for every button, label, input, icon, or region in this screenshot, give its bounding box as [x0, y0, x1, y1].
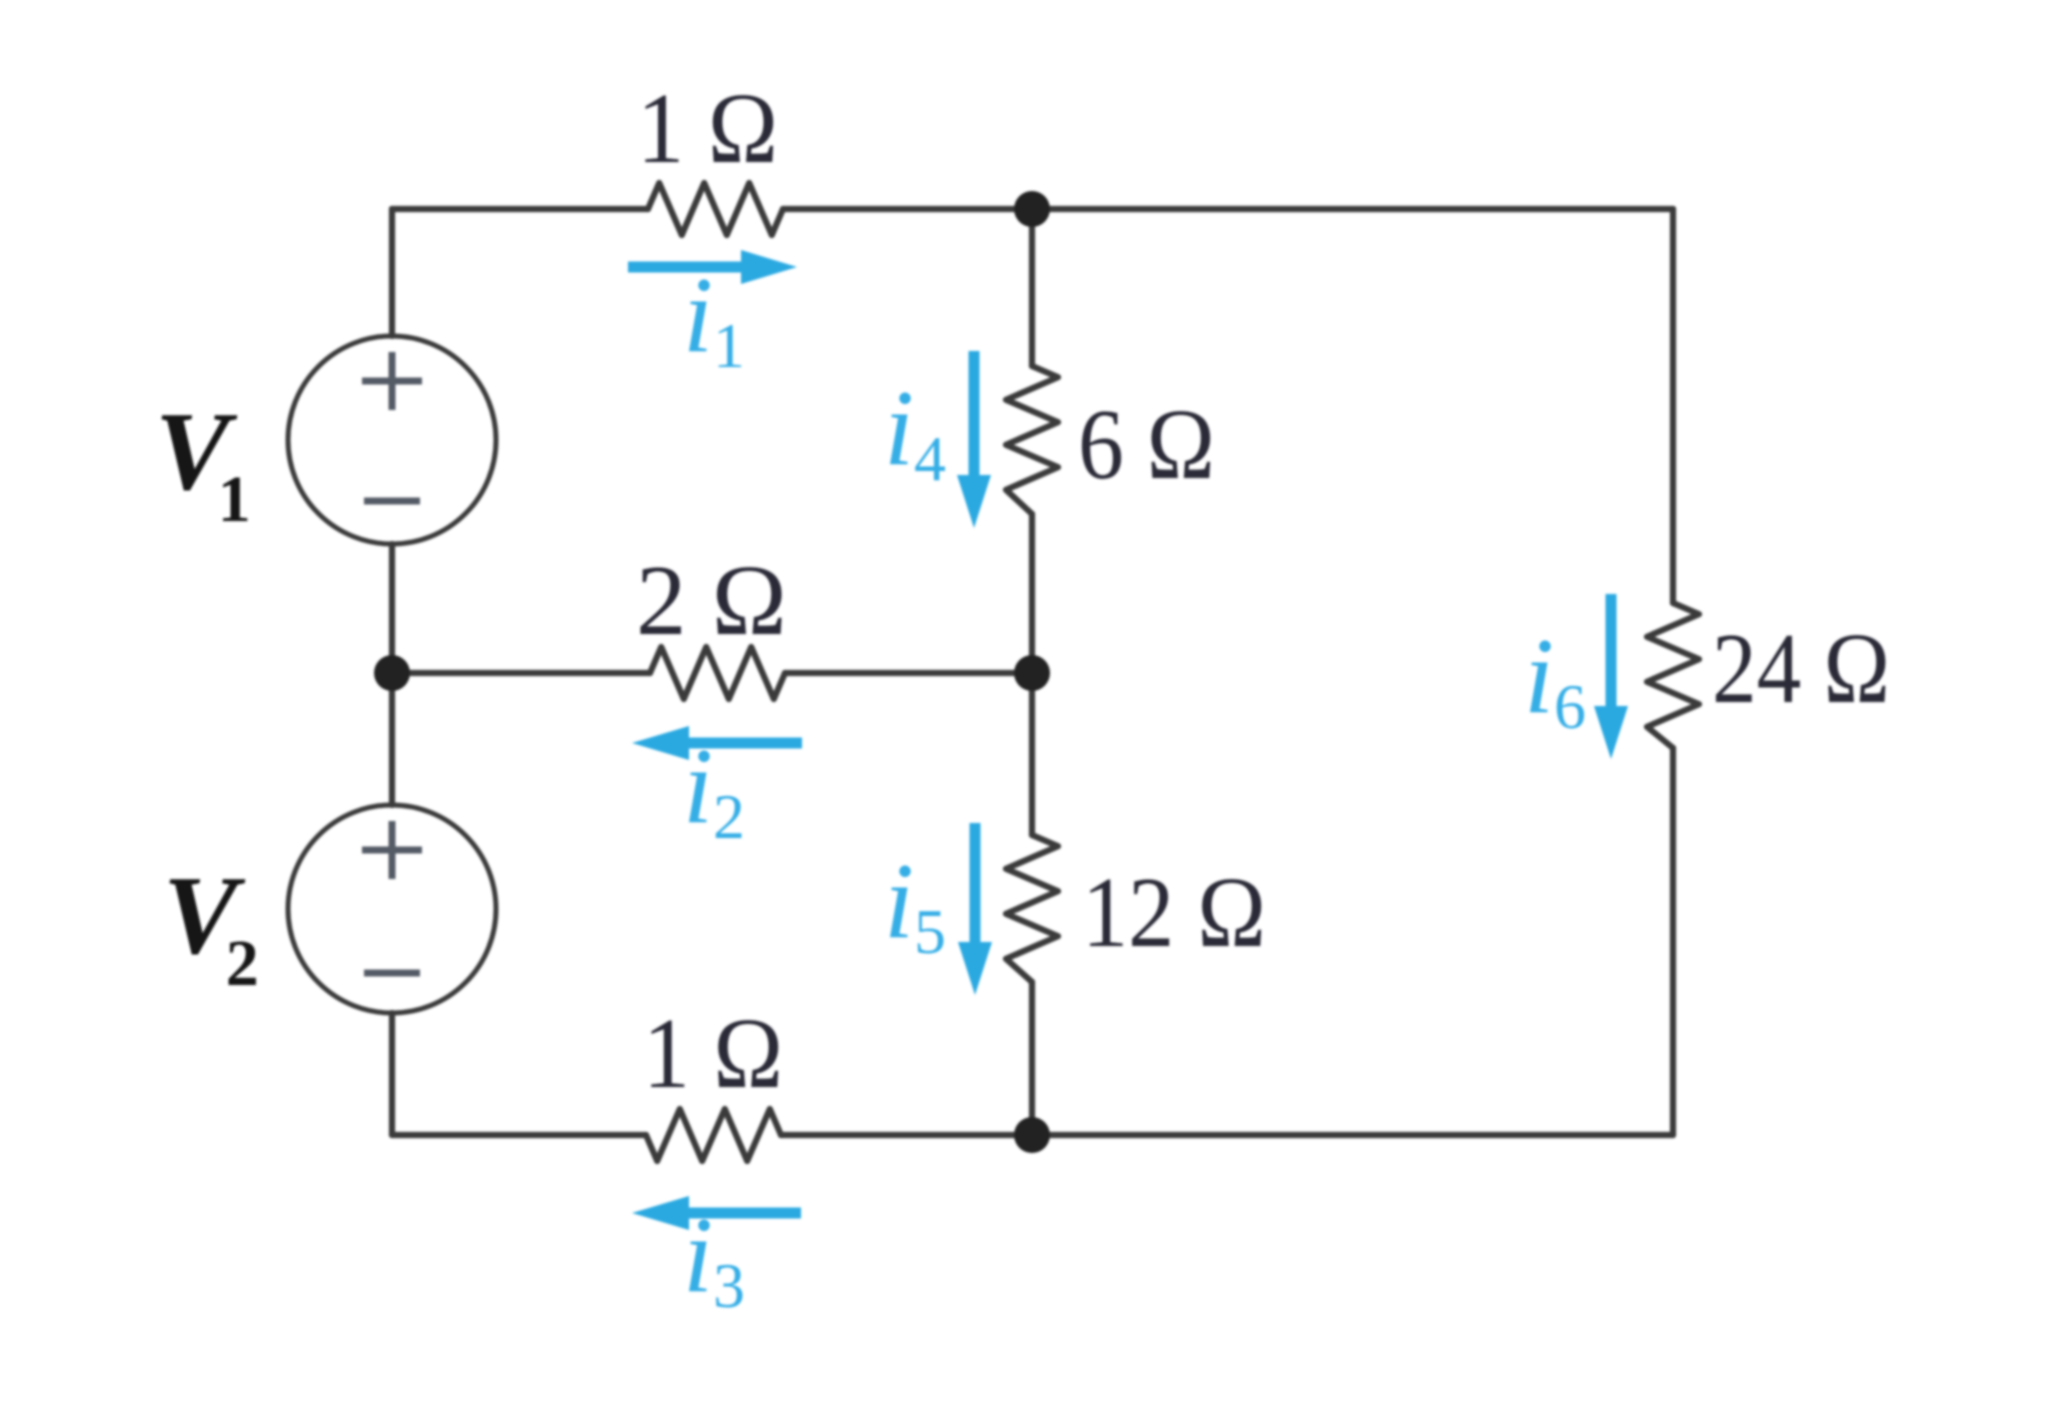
current arrow i1 (right): [628, 250, 797, 284]
V2 minus sign: [364, 970, 420, 977]
svg-text:1 Ω: 1 Ω: [643, 997, 783, 1109]
current arrow i4 (down): [957, 351, 991, 528]
V1 plus sign: [362, 352, 422, 410]
current arrow i2 (left): [632, 726, 802, 760]
wire right rail upper: [1670, 209, 1676, 603]
wire middle horizontal left of resistor: [392, 670, 650, 676]
node top (junction of 1ohm, 6ohm, right rail): [1014, 191, 1050, 227]
node A (between V1 and V2): [374, 655, 410, 691]
V1 minus sign: [364, 498, 420, 505]
current arrow i5 (down): [958, 823, 992, 995]
node bottom (junction 1ohm, 12ohm, right rail): [1014, 1117, 1050, 1153]
wire V2 bottom to bottom-left corner: [389, 1013, 395, 1135]
wire middle horizontal right of resistor: [785, 670, 1032, 676]
resistor 2ohm zigzag: [650, 647, 785, 699]
wire middle node to 12ohm: [1029, 673, 1035, 835]
resistor 24ohm zigzag: [1647, 603, 1699, 748]
svg-text:6 Ω: 6 Ω: [1078, 388, 1215, 500]
voltage source V2 circle: [288, 805, 496, 1013]
wire right rail lower: [1670, 748, 1676, 1135]
wire bottom-left horizontal: [392, 1132, 646, 1138]
wire V1 bottom to node A: [389, 544, 395, 673]
wire node A to V2 top: [389, 673, 395, 805]
resistor 6ohm zigzag: [1006, 366, 1058, 514]
current arrow i3 (left): [632, 1196, 801, 1230]
node middle (junction 2ohm, 6ohm, 12ohm): [1014, 655, 1050, 691]
resistor 1ohm top zigzag: [648, 183, 783, 235]
wire top-left horizontal: [392, 206, 648, 212]
svg-text:2 Ω: 2 Ω: [636, 544, 787, 656]
wire left rail top (corner to V1): [389, 209, 395, 336]
voltage source V1 circle: [288, 336, 496, 544]
resistor 1ohm bottom zigzag: [646, 1109, 781, 1161]
svg-text:1 Ω: 1 Ω: [637, 72, 778, 184]
wire 6ohm to middle node: [1029, 514, 1035, 673]
wire bottom-right horizontal: [781, 1132, 1673, 1138]
wire mid vertical upper (top node to 6ohm): [1029, 209, 1035, 366]
current arrow i6 (down): [1594, 594, 1628, 759]
wire 12ohm to bottom node: [1029, 982, 1035, 1135]
resistor 12ohm zigzag: [1006, 835, 1058, 982]
svg-text:12 Ω: 12 Ω: [1082, 856, 1266, 968]
svg-text:24 Ω: 24 Ω: [1712, 612, 1890, 724]
wire top-right horizontal: [783, 206, 1673, 212]
V2 plus sign: [362, 821, 422, 879]
